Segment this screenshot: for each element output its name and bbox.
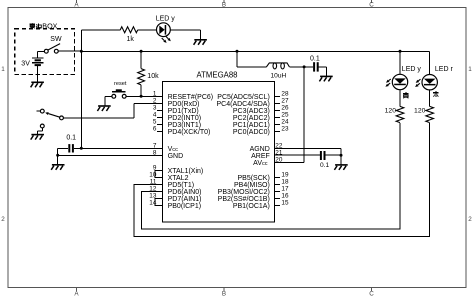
ground (reset): [98, 105, 111, 107]
svg-text:ATMEGA88: ATMEGA88: [196, 70, 237, 79]
svg-text:PD6(AIN0): PD6(AIN0): [168, 189, 202, 196]
resistor R 10k: [138, 69, 145, 85]
svg-text:24: 24: [281, 118, 289, 125]
color label 赤 (red): [433, 91, 439, 93]
svg-text:PB1(OC1A): PB1(OC1A): [233, 203, 270, 210]
resistor R 120 (LED r): [426, 106, 434, 122]
slide switch (input select): [37, 110, 41, 112]
svg-text:AREF: AREF: [251, 153, 270, 160]
wire LED y to resistor: [399, 90, 401, 107]
svg-text:PC3(ADC3): PC3(ADC3): [233, 108, 270, 115]
svg-text:PD5(T1): PD5(T1): [168, 182, 194, 189]
wire Vcc to pin 7: [81, 147, 162, 149]
svg-text:0.1: 0.1: [320, 162, 329, 169]
svg-text:1: 1: [1, 66, 5, 73]
svg-text:PD4(XCK/T0): PD4(XCK/T0): [168, 129, 211, 136]
svg-text:0.1: 0.1: [66, 135, 76, 142]
svg-text:6: 6: [153, 125, 157, 132]
resistor R 1k: [120, 27, 138, 33]
svg-text:1: 1: [153, 90, 157, 97]
svg-text:1k: 1k: [127, 36, 135, 43]
svg-text:PD0(RxD): PD0(RxD): [168, 101, 200, 108]
svg-text:25: 25: [281, 111, 289, 118]
svg-text:8: 8: [153, 149, 157, 156]
wire switch to PD0 pin 2: [63, 117, 133, 119]
wire inductor to AVcc node: [289, 66, 313, 68]
svg-text:PC2(ADC2): PC2(ADC2): [233, 115, 270, 122]
svg-text:GND: GND: [168, 153, 184, 160]
svg-text:XTAL2: XTAL2: [168, 175, 189, 182]
capacitor C 0.1 (AVcc filter): [313, 62, 315, 71]
svg-text:cc: cc: [262, 161, 268, 167]
wire top +3V rail: [81, 50, 429, 52]
svg-text:PD3(INT1): PD3(INT1): [168, 122, 201, 129]
svg-text:PC1(ADC1): PC1(ADC1): [233, 122, 270, 129]
node GND/cap junction: [56, 154, 59, 157]
svg-text:0.1: 0.1: [310, 55, 320, 62]
svg-text:PB0(ICP1): PB0(ICP1): [168, 203, 201, 210]
resistor R 120 (LED y): [396, 106, 404, 122]
svg-text:1: 1: [468, 66, 472, 73]
svg-text:PD1(TxD): PD1(TxD): [168, 108, 199, 115]
svg-text:26: 26: [281, 104, 289, 111]
svg-text:PB4(MISO): PB4(MISO): [234, 182, 270, 189]
wire rail to 10k: [140, 51, 142, 68]
svg-text:120: 120: [414, 108, 426, 115]
node AVcc filter junction: [303, 65, 306, 68]
svg-text:18: 18: [281, 179, 289, 186]
wire 10k to reset node: [140, 85, 142, 96]
op— IC body ATMEGA88: [163, 82, 275, 222]
LED D1 (LED y, top): [157, 23, 171, 37]
color label 黄 (yellow): [403, 92, 409, 94]
svg-text:27: 27: [281, 97, 289, 104]
ground (AREF): [335, 164, 348, 166]
svg-text:3: 3: [153, 104, 157, 111]
svg-text:AV: AV: [253, 160, 262, 167]
wire AGND pin 22: [275, 147, 342, 149]
wire XTAL1-XTAL2 tie (pins 9-10): [155, 171, 163, 178]
capacitor C 0.1 (Vcc decoupling): [74, 147, 81, 149]
battery box enclosure (dashed): [15, 29, 75, 75]
svg-text:10uH: 10uH: [271, 73, 287, 80]
wire Vcc bus: [80, 51, 82, 148]
svg-text:PC5(ADC5/SCL): PC5(ADC5/SCL): [217, 94, 270, 101]
wire AREF node to ground: [340, 155, 342, 165]
pushbutton reset: [126, 95, 141, 97]
svg-text:BOX: BOX: [42, 22, 57, 31]
svg-text:4: 4: [153, 111, 157, 118]
wire GND pin 8: [58, 154, 163, 156]
node rail/10k junction: [140, 50, 143, 53]
wire 1k to LED: [138, 29, 157, 31]
ground (top LED): [194, 39, 207, 41]
node AREF/AGND junction: [340, 154, 343, 157]
svg-text:15: 15: [281, 200, 289, 207]
capacitor C 0.1 (AREF) with AREF pin 21 wire: [275, 154, 320, 156]
wire rail to LED y: [399, 51, 401, 74]
wire rail corner to LED r: [429, 51, 431, 74]
svg-text:B: B: [222, 290, 226, 296]
svg-text:reset: reset: [114, 81, 127, 87]
node rail/10uH junction: [236, 50, 239, 53]
svg-text:C: C: [369, 290, 374, 296]
svg-text:PB2(SS#/OC1B): PB2(SS#/OC1B): [218, 196, 270, 203]
svg-text:10k: 10k: [147, 73, 159, 80]
ground (AVcc cap): [320, 75, 333, 77]
svg-text:3V: 3V: [21, 60, 30, 67]
ground (slide switch): [31, 134, 44, 136]
svg-text:B: B: [222, 1, 226, 8]
wire rail to inductor: [236, 51, 238, 67]
svg-text:2: 2: [1, 216, 5, 223]
svg-text:PB3(MOSI/OC2): PB3(MOSI/OC2): [218, 189, 270, 196]
svg-text:2: 2: [153, 97, 157, 104]
svg-text:C: C: [369, 1, 374, 8]
svg-text:PD2(INT0): PD2(INT0): [168, 115, 201, 122]
svg-text:7: 7: [153, 142, 157, 149]
wire rail to 1k resistor: [80, 30, 82, 52]
node rail/LED y junction: [399, 50, 402, 53]
svg-text:PC4(ADC4/SDA): PC4(ADC4/SDA): [217, 101, 270, 108]
svg-text:LED y: LED y: [156, 16, 176, 23]
svg-text:AGND: AGND: [250, 146, 270, 153]
svg-text:2: 2: [468, 216, 472, 223]
svg-text:PC0(ADC0): PC0(ADC0): [233, 129, 270, 136]
switch SW: [38, 50, 45, 52]
svg-text:16: 16: [281, 193, 289, 200]
svg-text:PD7(AIN1): PD7(AIN1): [168, 196, 202, 203]
ground (battery): [31, 81, 44, 83]
wire LED to ground: [170, 29, 200, 31]
wire PD5 pin 11 to LED r cathode bus: [134, 123, 430, 237]
wire LED r to resistor: [429, 90, 431, 107]
IC unconnected pin stubs: [157, 109, 163, 111]
svg-text:LED r: LED r: [435, 66, 454, 73]
svg-text:17: 17: [281, 186, 289, 193]
wire PD7-PB0 tie (pins 13-14): [155, 199, 163, 206]
svg-text:PB5(SCK): PB5(SCK): [238, 175, 270, 182]
svg-text:SW: SW: [50, 36, 62, 43]
svg-text:RESET#(PC6): RESET#(PC6): [168, 94, 214, 101]
svg-text:28: 28: [281, 90, 289, 97]
wire cap node to ground: [57, 155, 59, 165]
wire reset node to RESET pin 1: [141, 95, 162, 97]
svg-text:19: 19: [281, 172, 289, 179]
node reset junction: [140, 95, 143, 98]
node battery/rail junction: [80, 50, 83, 53]
inductor L 10uH: [266, 63, 289, 67]
svg-text:5: 5: [153, 118, 157, 125]
node Vcc/cap junction: [80, 147, 83, 150]
svg-text:23: 23: [281, 125, 289, 132]
battery 3V: [37, 51, 39, 57]
svg-text:XTAL1(Xin): XTAL1(Xin): [168, 168, 204, 175]
svg-text:LED y: LED y: [402, 66, 422, 73]
svg-text:120: 120: [385, 108, 397, 115]
ground (Vcc cap): [52, 164, 65, 166]
wire AVcc node to pin 20: [303, 67, 305, 162]
wire PD6 pin 12 to LED y cathode bus: [141, 123, 400, 229]
battery box label 電池BOX: [30, 23, 36, 25]
LED D3 (LED r): [422, 75, 437, 90]
LED D2 (LED y, right): [392, 74, 407, 89]
